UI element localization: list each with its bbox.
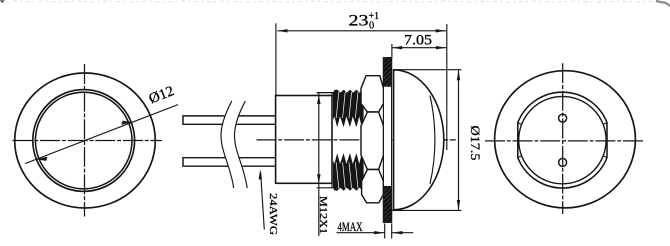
arrow 4MAX left (374, 231, 384, 234)
flange body (383, 58, 391, 223)
dome head (394, 70, 444, 210)
hex nut middle facet (361, 112, 384, 170)
terminal pin lower (559, 158, 567, 166)
hex nut lower facet (362, 170, 384, 203)
flat notch upper-right (604, 123, 607, 125)
arrowhead D12 upper (121, 121, 132, 125)
centerline horizontal (middle view) (257, 139, 456, 141)
svg-text:Ø17.5: Ø17.5 (468, 126, 483, 161)
terminal pin upper (559, 114, 567, 122)
arrow 4MAX right (392, 231, 402, 234)
dim line 4MAX left part (337, 232, 385, 234)
dim line D17.5 (458, 70, 460, 210)
arrow M12X1 top (317, 95, 321, 104)
ext line D17.5 bottom (392, 209, 462, 211)
thread band upper (333, 90, 364, 128)
corner mark top left (0, 0, 5, 3)
arrow 23 right (436, 29, 446, 32)
rear button outline with flats (518, 92, 607, 188)
centerline vertical (left view) (84, 64, 86, 217)
arrow D17.5 top (457, 70, 460, 80)
svg-text:4MAX: 4MAX (338, 220, 364, 234)
arrow 7.05 right (436, 46, 446, 49)
bezel outer circle (15, 73, 156, 208)
ext line 4MAX left (384, 224, 386, 239)
dim line M12X1 (318, 93, 320, 236)
svg-text:24AWG: 24AWG (267, 193, 279, 235)
wire 2 (bottom) (183, 158, 276, 167)
flange hatched bottom (383, 187, 391, 223)
dim line 23 (277, 30, 446, 32)
svg-text:M12X1: M12X1 (317, 196, 329, 234)
svg-text:23: 23 (349, 13, 369, 30)
arrowhead D12 lower (36, 157, 47, 161)
thread step top (331, 93, 333, 96)
ext line 4MAX right (391, 224, 393, 239)
centerline vertical (right view) (562, 63, 564, 214)
button ring inner circle (35, 92, 132, 189)
body barrel (276, 96, 332, 184)
svg-text:Ø12: Ø12 (147, 83, 177, 107)
thread band lower (333, 153, 364, 191)
dimension line D12 (25, 105, 178, 164)
ext line D17.5 top (394, 69, 462, 71)
thread crest line bottom (317, 187, 338, 189)
thread crest line top (317, 92, 336, 94)
svg-text:0: 0 (369, 21, 374, 32)
arrow 7.05 left (392, 46, 402, 49)
leader 24AWG (261, 173, 265, 230)
flat notch lower-left (518, 156, 521, 158)
arrow M12X1 bottom (317, 174, 321, 183)
button ring outer circle (33, 90, 135, 192)
ext line right (23 / 7.05) (446, 24, 448, 150)
corner mark top right (656, 1, 670, 6)
break line right (234, 101, 247, 188)
break line left (221, 101, 234, 188)
flat notch lower-right (604, 156, 607, 158)
dim line 4MAX right part (392, 232, 413, 234)
thread step bottom (331, 183, 333, 188)
arrow 24AWG (259, 169, 262, 179)
wire 1 (top) (183, 116, 276, 124)
arrow 23 left (277, 29, 287, 32)
flat notch upper-left (518, 123, 521, 125)
rear outer circle (495, 71, 636, 208)
rear button inner circle (519, 96, 606, 183)
centerline horizontal (left view) (13, 140, 163, 142)
centerline horizontal (right view) (485, 140, 644, 142)
dim line 7.05 (392, 47, 446, 49)
dome inner arc (430, 96, 435, 185)
svg-text:7.05: 7.05 (404, 33, 432, 49)
flange hatched top (383, 58, 391, 86)
hex nut upper facet (361, 76, 384, 112)
arrow D17.5 bottom (457, 200, 460, 210)
ext line 7.05 left (391, 44, 393, 58)
torn paper edge top (0, 1, 670, 3)
ext line left (23) (275, 23, 277, 95)
